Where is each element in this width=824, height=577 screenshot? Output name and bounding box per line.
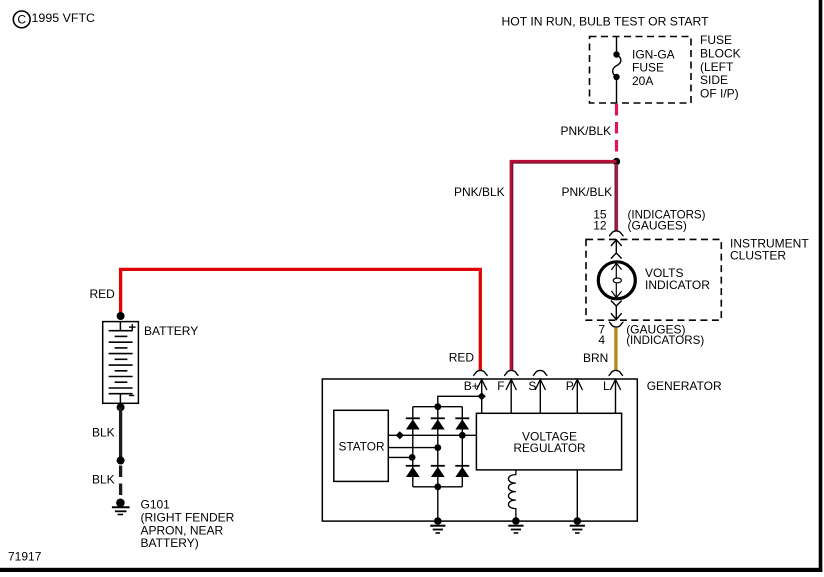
svg-text:71917: 71917 [8,550,42,564]
svg-text:GENERATOR: GENERATOR [647,379,722,393]
diode D6 [455,466,469,477]
ground under coil [508,526,523,533]
fuse block location label [700,33,741,100]
splice node S1 [613,158,620,165]
svg-text:4: 4 [598,333,605,347]
svg-text:IGN-GA: IGN-GA [632,48,675,62]
diode D4 [406,466,420,477]
svg-text:OF I/P): OF I/P) [700,87,739,101]
diode D1 [406,418,420,429]
stator phase wire 3 [388,456,413,458]
fuse value label IGN-GA FUSE 20A [632,48,675,89]
pin numbers 15 / 12 [593,208,607,233]
ground under rectifier [430,526,445,533]
connector bump L [609,370,624,375]
stator phase wire 1 [388,434,476,436]
ground G101 [112,499,130,515]
pin numbers 7 / 4 [598,322,605,347]
wire BLK dashed to ground [119,466,122,496]
node P ground [574,517,582,525]
diode D3 [455,418,469,429]
node battery positive [117,312,125,320]
svg-text:C: C [17,13,26,27]
svg-text:HOT IN RUN, BULB TEST OR START: HOT IN RUN, BULB TEST OR START [502,15,710,29]
terminal arrow S [535,379,545,413]
copyright label [13,11,95,28]
node battery negative [117,403,125,411]
label INSTRUMENT CLUSTER [730,236,809,262]
svg-text:SIDE: SIDE [700,73,728,87]
inductor L1 (field coil) [508,470,516,521]
svg-text:1995 VFTC: 1995 VFTC [32,11,96,25]
arrow into cluster (top) [611,240,622,259]
node rectifier ground [434,517,442,525]
node coil ground [512,517,520,525]
fuse F: IGN-GA FUSE 20A [613,37,621,104]
svg-text:CLUSTER: CLUSTER [730,248,786,262]
wire PNK/BLK down to instrument cluster [615,164,616,231]
connector bump F [504,370,519,375]
node phase 1 / column 3 [459,432,466,439]
stator box [334,410,389,481]
splice node on BLK wire [117,457,125,465]
svg-text:(INDICATORS): (INDICATORS) [626,333,704,347]
svg-text:BLOCK: BLOCK [700,47,741,61]
wire PNK/BLK horizontal branch to F [511,162,616,371]
svg-text:BATTERY: BATTERY [144,324,198,338]
node bottom rail center [434,483,441,490]
node diamond on phase 1 [396,431,404,439]
pin function labels (INDICATORS)/(GAUGES) [628,208,706,233]
battery BT1 [103,322,139,404]
svg-text:12: 12 [593,219,607,233]
wire BLK battery to splice [119,407,122,460]
wire PNK/BLK dashed from fuse to splice [615,104,618,156]
svg-text:S: S [528,379,536,393]
terminal arrow L [610,379,620,413]
wire rectifier to ground [437,487,439,521]
svg-text:PNK/BLK: PNK/BLK [454,185,505,199]
terminal arrow F [506,379,516,413]
node B+ junction diamond [478,392,486,400]
svg-text:P: P [566,379,574,393]
svg-text:BLK: BLK [92,425,115,439]
svg-text:(LEFT: (LEFT [700,60,734,74]
connector bump S [533,370,548,375]
label VOLTS INDICATOR [645,266,710,292]
svg-text:FUSE: FUSE [632,61,664,75]
voltage regulator box [476,413,621,470]
diode D2 [431,418,445,429]
wire RED battery to B+ [121,269,481,370]
svg-text:STATOR: STATOR [339,439,385,453]
svg-text:B+: B+ [464,379,479,393]
svg-text:PNK/BLK: PNK/BLK [561,124,612,138]
rectifier bridge rails [413,407,463,487]
svg-text:FUSE: FUSE [700,33,732,47]
label G101 location [141,498,235,550]
generator box [322,379,637,521]
wire P to ground [576,470,578,521]
connector bump at cluster pin 15/12 [609,231,624,236]
wire BRN cluster to L [614,328,617,371]
wire B+ to rectifier top rail [438,396,482,406]
node top rail center [434,403,441,410]
svg-text:RED: RED [449,351,475,365]
svg-text:BLK: BLK [92,472,115,486]
svg-text:BRN: BRN [583,351,608,365]
node phase 3 / column 1 [409,454,416,461]
stator phase wire 2 [388,447,438,449]
svg-text:(GAUGES): (GAUGES) [628,219,687,233]
frame bottom border [0,568,822,572]
svg-text:REGULATOR: REGULATOR [514,441,586,455]
pin function labels (GAUGES)/(INDICATORS) [626,322,704,347]
frame right border [819,0,823,572]
svg-text:20A: 20A [632,74,653,88]
connector cup at cluster pin 7/4 [609,322,624,327]
svg-text:INDICATOR: INDICATOR [645,278,710,292]
arrow out of cluster (bottom) [611,301,622,320]
svg-text:BATTERY): BATTERY) [141,536,199,550]
svg-text:L: L [603,379,610,393]
diode D5 [431,466,445,477]
svg-text:PNK/BLK: PNK/BLK [562,185,613,199]
ground under P [570,526,585,533]
connector bump B+ [473,370,488,375]
instrument cluster dashed box [586,239,721,320]
terminal arrow B+ [477,379,487,413]
node phase 2 / column 2 [434,444,441,451]
volts indicator lamp U1 [598,262,635,299]
label VOLTAGE REGULATOR [514,430,586,456]
fuse block dashed box [590,37,692,104]
svg-text:F: F [497,379,504,393]
terminal arrow P [572,379,582,413]
svg-text:RED: RED [90,287,116,301]
